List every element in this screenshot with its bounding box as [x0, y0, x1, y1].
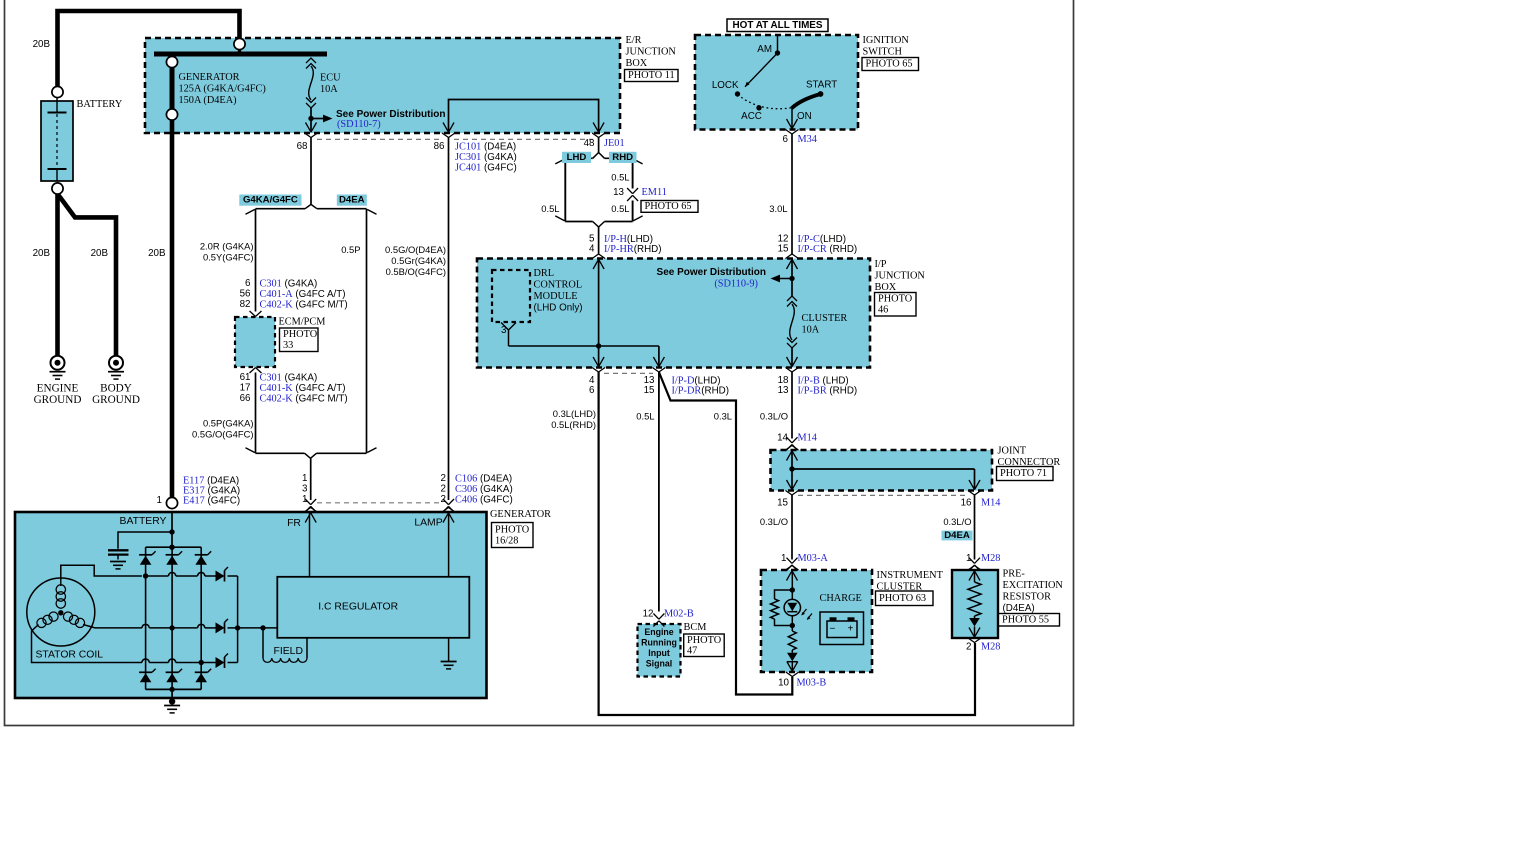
svg-text:M14: M14 — [798, 433, 817, 444]
svg-text:0.5P(G4KA): 0.5P(G4KA) — [203, 418, 254, 429]
svg-text:ECM/PCM: ECM/PCM — [279, 316, 326, 327]
svg-text:61: 61 — [240, 372, 251, 383]
svg-text:M28: M28 — [981, 642, 1000, 653]
svg-text:CLUSTER: CLUSTER — [802, 313, 848, 324]
svg-text:I/P-HR(RHD): I/P-HR(RHD) — [604, 244, 662, 255]
svg-text:15: 15 — [777, 497, 788, 508]
svg-text:+: + — [848, 624, 854, 635]
svg-text:56: 56 — [240, 289, 251, 300]
svg-text:PHOTO 55: PHOTO 55 — [1002, 614, 1049, 625]
svg-text:82: 82 — [240, 299, 251, 310]
svg-text:13: 13 — [613, 187, 624, 198]
svg-text:2.0R (G4KA): 2.0R (G4KA) — [200, 241, 254, 252]
svg-text:C106 (D4EA): C106 (D4EA) — [455, 473, 512, 484]
svg-text:3.0L: 3.0L — [769, 203, 787, 214]
svg-text:4: 4 — [589, 244, 595, 255]
svg-text:I/P: I/P — [875, 259, 887, 270]
svg-text:48: 48 — [584, 138, 595, 149]
svg-text:JC101 (D4EA): JC101 (D4EA) — [455, 141, 516, 152]
svg-text:C301 (G4KA): C301 (G4KA) — [260, 372, 318, 383]
svg-text:BCM: BCM — [684, 622, 707, 633]
svg-text:15: 15 — [778, 244, 789, 255]
svg-text:PHOTO: PHOTO — [495, 524, 530, 535]
svg-text:GROUND: GROUND — [34, 394, 82, 406]
svg-text:0.5L: 0.5L — [611, 203, 629, 214]
svg-text:2: 2 — [441, 484, 446, 495]
svg-text:C301 (G4KA): C301 (G4KA) — [260, 278, 318, 289]
svg-text:1: 1 — [781, 553, 786, 564]
svg-text:DRL: DRL — [534, 268, 555, 279]
svg-text:JE01: JE01 — [604, 138, 625, 149]
svg-text:0.5B/O(G4FC): 0.5B/O(G4FC) — [386, 266, 446, 277]
svg-text:IGNITION: IGNITION — [863, 35, 910, 46]
svg-text:LOCK: LOCK — [712, 80, 739, 91]
svg-text:PHOTO: PHOTO — [283, 329, 318, 340]
svg-text:EXCITATION: EXCITATION — [1003, 580, 1064, 591]
svg-text:0.5Gr(G4KA): 0.5Gr(G4KA) — [391, 255, 446, 266]
svg-text:1: 1 — [302, 473, 307, 484]
svg-text:M14: M14 — [981, 497, 1000, 508]
svg-text:1: 1 — [157, 495, 162, 506]
svg-text:150A (D4EA): 150A (D4EA) — [179, 95, 237, 106]
svg-text:PHOTO 11: PHOTO 11 — [628, 70, 675, 81]
svg-text:PHOTO 63: PHOTO 63 — [879, 593, 926, 604]
svg-text:33: 33 — [283, 340, 293, 351]
svg-text:0.5L: 0.5L — [636, 411, 654, 422]
svg-text:20B: 20B — [91, 248, 109, 259]
svg-text:LHD: LHD — [567, 152, 587, 163]
svg-text:0.3L/O: 0.3L/O — [760, 516, 788, 527]
svg-text:20B: 20B — [148, 248, 166, 259]
svg-text:Running: Running — [641, 638, 677, 648]
svg-text:BODY: BODY — [100, 383, 132, 395]
svg-text:86: 86 — [434, 141, 445, 152]
svg-text:0.5L(RHD): 0.5L(RHD) — [551, 419, 596, 430]
svg-text:E/R: E/R — [626, 35, 642, 46]
svg-text:HOT AT ALL TIMES: HOT AT ALL TIMES — [733, 20, 823, 31]
svg-text:M34: M34 — [798, 134, 817, 145]
svg-text:CHARGE: CHARGE — [820, 593, 862, 604]
svg-text:10A: 10A — [802, 325, 820, 336]
svg-text:2: 2 — [441, 473, 446, 484]
svg-text:CONTROL: CONTROL — [534, 280, 583, 291]
svg-text:6: 6 — [783, 134, 789, 145]
svg-text:2: 2 — [966, 642, 971, 653]
svg-text:JUNCTION: JUNCTION — [875, 271, 926, 282]
svg-text:C306 (G4KA): C306 (G4KA) — [455, 484, 513, 495]
svg-text:2: 2 — [441, 494, 446, 505]
svg-text:10A: 10A — [320, 84, 338, 95]
svg-text:C401-K (G4FC A/T): C401-K (G4FC A/T) — [260, 383, 346, 394]
svg-text:ON: ON — [797, 111, 812, 122]
svg-text:I.C REGULATOR: I.C REGULATOR — [318, 602, 398, 613]
svg-text:STATOR COIL: STATOR COIL — [36, 650, 104, 661]
svg-text:PHOTO 71: PHOTO 71 — [1000, 468, 1047, 479]
svg-text:C401-A (G4FC A/T): C401-A (G4FC A/T) — [260, 289, 346, 300]
svg-text:46: 46 — [878, 305, 888, 316]
svg-text:15: 15 — [644, 385, 655, 396]
svg-text:RHD: RHD — [612, 152, 633, 163]
svg-text:PRE-: PRE- — [1003, 569, 1026, 580]
svg-text:C406 (G4FC): C406 (G4FC) — [455, 494, 513, 505]
svg-text:BOX: BOX — [626, 58, 648, 69]
svg-text:JUNCTION: JUNCTION — [626, 47, 677, 58]
svg-text:C402-K (G4FC M/T): C402-K (G4FC M/T) — [260, 393, 348, 404]
svg-text:(LHD Only): (LHD Only) — [534, 303, 583, 314]
svg-text:ENGINE: ENGINE — [37, 383, 79, 395]
svg-text:BATTERY: BATTERY — [77, 99, 123, 110]
svg-text:1: 1 — [966, 553, 971, 564]
svg-text:(SD110-9): (SD110-9) — [714, 279, 758, 290]
svg-text:Signal: Signal — [646, 659, 672, 669]
svg-text:I/P-DR(RHD): I/P-DR(RHD) — [672, 385, 730, 396]
svg-text:ACC: ACC — [741, 111, 762, 122]
svg-text:G4KA/G4FC: G4KA/G4FC — [243, 195, 298, 206]
svg-text:M28: M28 — [981, 553, 1000, 564]
svg-text:JC401 (G4FC): JC401 (G4FC) — [455, 162, 517, 173]
svg-text:GROUND: GROUND — [92, 394, 140, 406]
svg-text:M02-B: M02-B — [664, 608, 694, 619]
svg-text:JC301 (G4KA): JC301 (G4KA) — [455, 152, 517, 163]
svg-text:BOX: BOX — [875, 282, 897, 293]
svg-text:0.3L/O: 0.3L/O — [760, 411, 788, 422]
svg-text:C402-K (G4FC M/T): C402-K (G4FC M/T) — [260, 299, 348, 310]
svg-text:(D4EA): (D4EA) — [1003, 603, 1035, 614]
svg-text:17: 17 — [240, 383, 251, 394]
svg-text:0.5L: 0.5L — [541, 203, 559, 214]
svg-text:20B: 20B — [33, 248, 51, 259]
svg-text:M03-B: M03-B — [797, 678, 827, 689]
svg-text:0.3L(LHD): 0.3L(LHD) — [553, 408, 596, 419]
svg-text:PHOTO 65: PHOTO 65 — [645, 201, 692, 212]
svg-text:0.3L: 0.3L — [714, 411, 732, 422]
svg-text:12: 12 — [643, 608, 654, 619]
svg-text:−: − — [830, 624, 836, 635]
svg-text:D4EA: D4EA — [339, 195, 365, 206]
svg-text:RESISTOR: RESISTOR — [1003, 592, 1052, 603]
svg-text:0.3L/O: 0.3L/O — [943, 516, 971, 527]
svg-text:16/28: 16/28 — [495, 535, 518, 546]
svg-text:0.5G/O(D4EA): 0.5G/O(D4EA) — [385, 244, 446, 255]
svg-text:AM: AM — [757, 44, 772, 55]
svg-text:16: 16 — [961, 497, 972, 508]
svg-text:6: 6 — [245, 278, 251, 289]
svg-text:I/P-BR (RHD): I/P-BR (RHD) — [798, 385, 858, 396]
svg-text:3: 3 — [501, 325, 507, 336]
svg-text:(SD110-7): (SD110-7) — [337, 119, 381, 130]
svg-text:47: 47 — [687, 646, 697, 657]
svg-text:14: 14 — [777, 433, 788, 444]
svg-text:M03-A: M03-A — [798, 553, 829, 564]
svg-text:JOINT: JOINT — [998, 446, 1027, 457]
svg-text:13: 13 — [778, 385, 789, 396]
svg-text:INSTRUMENT: INSTRUMENT — [877, 570, 944, 581]
svg-text:FR: FR — [287, 518, 301, 529]
svg-text:See Power Distribution: See Power Distribution — [657, 267, 766, 278]
svg-text:ECU: ECU — [320, 72, 341, 83]
svg-text:3: 3 — [302, 484, 308, 495]
svg-text:20B: 20B — [33, 39, 51, 50]
svg-text:LAMP: LAMP — [414, 518, 442, 529]
svg-text:PHOTO: PHOTO — [687, 635, 722, 646]
svg-text:10: 10 — [778, 678, 789, 689]
svg-text:MODULE: MODULE — [534, 291, 578, 302]
svg-text:GENERATOR: GENERATOR — [490, 509, 551, 520]
svg-text:125A (G4KA/G4FC): 125A (G4KA/G4FC) — [179, 83, 266, 94]
svg-text:I/P-CR (RHD): I/P-CR (RHD) — [798, 244, 858, 255]
svg-text:E417 (G4FC): E417 (G4FC) — [183, 495, 240, 506]
svg-text:Engine: Engine — [644, 627, 673, 637]
svg-text:BATTERY: BATTERY — [120, 516, 167, 527]
svg-text:66: 66 — [240, 393, 251, 404]
svg-text:START: START — [806, 80, 837, 91]
svg-text:0.5G/O(G4FC): 0.5G/O(G4FC) — [192, 429, 253, 440]
svg-text:1: 1 — [302, 494, 307, 505]
svg-text:PHOTO: PHOTO — [878, 294, 913, 305]
svg-text:FIELD: FIELD — [274, 646, 303, 657]
svg-text:Input: Input — [648, 648, 670, 658]
svg-text:PHOTO 65: PHOTO 65 — [866, 59, 913, 70]
svg-text:SWITCH: SWITCH — [863, 47, 903, 58]
svg-text:GENERATOR: GENERATOR — [179, 72, 240, 83]
svg-text:6: 6 — [589, 385, 595, 396]
svg-text:0.5Y(G4FC): 0.5Y(G4FC) — [203, 252, 254, 263]
svg-text:0.5P: 0.5P — [341, 244, 360, 255]
svg-text:68: 68 — [297, 141, 308, 152]
svg-text:0.5L: 0.5L — [611, 172, 629, 183]
svg-text:EM11: EM11 — [642, 187, 667, 198]
svg-text:D4EA: D4EA — [944, 530, 970, 541]
